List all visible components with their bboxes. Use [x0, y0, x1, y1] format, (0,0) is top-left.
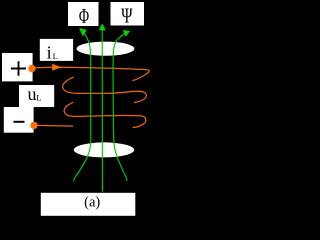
coil turn 3	[64, 102, 146, 127]
flux arrowhead right (to PSI)	[123, 30, 130, 37]
label box minus	[4, 107, 34, 133]
flux line middle	[101, 25, 103, 192]
terminal dot +	[28, 65, 35, 72]
wire to - terminal	[34, 124, 73, 127]
flux line right	[113, 31, 129, 181]
svg-text:(a): (a)	[84, 195, 100, 211]
label box plus	[2, 53, 33, 81]
svg-text:u: u	[28, 84, 37, 104]
label box PHI	[68, 2, 99, 26]
wire from + terminal and coil turn 1	[32, 67, 149, 80]
plus sign	[11, 61, 26, 76]
flux arrowhead middle	[99, 23, 106, 30]
label box PSI	[111, 2, 145, 26]
svg-text:L: L	[36, 93, 41, 103]
flux arrowhead left (to PHI)	[79, 28, 87, 36]
label box uL	[19, 85, 54, 107]
label box (a)	[41, 193, 136, 216]
svg-text:L: L	[53, 51, 58, 61]
svg-text:Ψ: Ψ	[121, 4, 133, 28]
flux line left	[73, 29, 90, 182]
coil core top ellipse	[77, 42, 135, 56]
svg-text:i: i	[47, 42, 52, 62]
minus sign	[14, 121, 25, 123]
terminal dot -	[30, 122, 37, 129]
current arrowhead iL	[52, 64, 62, 71]
coil turn 2	[63, 77, 147, 102]
coil core bottom ellipse	[74, 142, 134, 157]
svg-text:Φ: Φ	[79, 4, 89, 28]
label box iL	[40, 39, 73, 61]
